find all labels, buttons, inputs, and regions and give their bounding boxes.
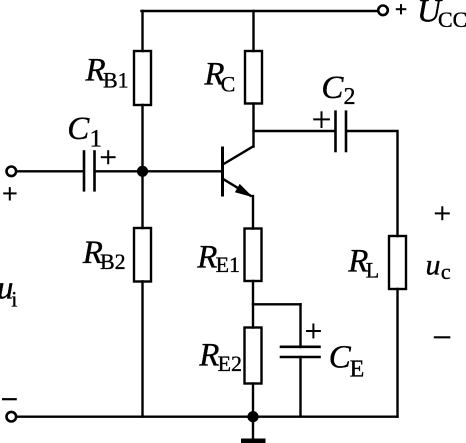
resistor RE1 [245, 229, 262, 282]
wire collector node to C2 [254, 130, 335, 132]
label +UCC [396, 0, 466, 32]
wire ground rail [17, 416, 398, 418]
wire RB1 bottom to node B [141, 105, 143, 171]
svg-text:u: u [426, 249, 441, 282]
svg-text:1: 1 [90, 126, 103, 153]
label C2 [321, 70, 355, 110]
label C1 [67, 111, 102, 153]
label + CE polarity [306, 324, 321, 339]
svg-text:E2: E2 [218, 351, 242, 376]
capacitor C2 [336, 112, 347, 151]
wire RB1 top lead [141, 11, 143, 51]
svg-text:C: C [221, 72, 236, 97]
capacitor C1 [84, 152, 95, 191]
wire input to C1 [17, 170, 83, 172]
svg-text:C: C [321, 70, 344, 106]
wire C1 to node B [96, 170, 221, 172]
ground [241, 417, 266, 443]
label RB1 [85, 53, 129, 93]
label ui [0, 271, 17, 312]
wire RE1 to RE2 [252, 281, 254, 328]
wire RE2 to ground junction [252, 384, 254, 417]
label RC [203, 57, 235, 97]
svg-text:c: c [441, 259, 451, 284]
wire RB2 to ground rail [141, 282, 143, 417]
svg-text:B2: B2 [100, 249, 126, 274]
label + output polarity [435, 206, 450, 220]
input terminal [7, 167, 17, 177]
label CE [329, 340, 364, 383]
wire C2 to RL branch [347, 131, 398, 236]
svg-text:E1: E1 [216, 252, 240, 277]
resistor RC [245, 51, 262, 104]
node B junction [137, 166, 148, 177]
label RL [347, 244, 379, 283]
transistor Q1 [223, 146, 254, 197]
wire RL to ground rail [396, 289, 398, 417]
label + C2 polarity [313, 111, 330, 128]
bottom terminal [7, 412, 17, 422]
svg-text:C: C [67, 111, 90, 147]
svg-text:C: C [329, 340, 352, 376]
terminal +UCC [378, 6, 388, 16]
capacitor CE [281, 347, 320, 357]
resistor RE2 [245, 328, 262, 384]
resistor RB2 [134, 228, 151, 282]
wire CE to ground rail [299, 357, 301, 417]
svg-text:i: i [11, 286, 17, 311]
label − input polarity [2, 398, 17, 400]
svg-text:R: R [198, 338, 219, 374]
ground junction [247, 411, 258, 422]
wire RC to collector [252, 104, 254, 147]
svg-text:CC: CC [438, 7, 466, 32]
label RE2 [198, 338, 242, 376]
label uc [426, 249, 451, 285]
wire RC top lead [252, 11, 254, 51]
label − output polarity [434, 336, 451, 338]
svg-text:L: L [366, 257, 379, 282]
svg-text:2: 2 [344, 84, 356, 110]
label + input polarity [3, 187, 16, 200]
wire emitter to RE1 [252, 196, 254, 229]
label + C1 polarity [101, 150, 116, 164]
resistor RL [389, 236, 406, 289]
svg-text:R: R [196, 240, 217, 276]
wire CE top lead [299, 304, 301, 347]
wire emitter node to CE [253, 303, 301, 305]
label RE1 [196, 240, 240, 278]
wire node B to RB2 [141, 171, 143, 228]
svg-text:B1: B1 [103, 68, 129, 93]
label RB2 [82, 235, 126, 274]
svg-text:E: E [350, 357, 365, 383]
wire top supply rail [142, 10, 378, 12]
resistor RB1 [134, 51, 151, 105]
